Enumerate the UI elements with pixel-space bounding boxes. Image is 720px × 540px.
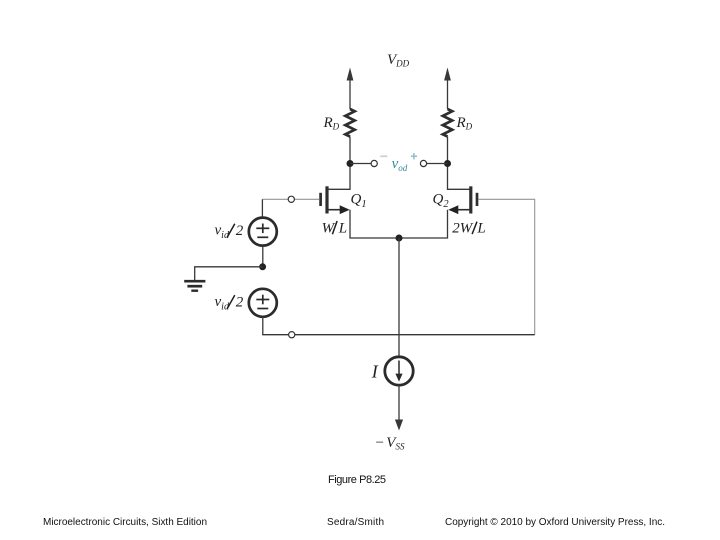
source vid/2 bottom [249,289,277,317]
wire stub to left output terminal [350,163,371,165]
wire input bottom vertical [262,317,264,335]
label vod with polarity [380,153,417,173]
arrow to -VSS [395,420,403,431]
source vid/2 top [249,218,277,246]
svg-text:Sedra/Smith: Sedra/Smith [327,517,384,528]
wire to ground [195,267,263,280]
wire Q1 gate lead [262,198,319,200]
label vid/2 top [215,222,244,241]
wire left rail resistor to drain [329,137,351,190]
wire right rail resistor to drain [448,137,470,190]
current source I [385,357,413,385]
wire stub to right output terminal [427,163,448,165]
svg-text:I: I [371,362,379,382]
svg-text:L: L [338,220,347,236]
wire common node to current source [398,238,400,357]
node right drain [444,160,451,167]
wire between sources [262,246,264,267]
wire Q2 gate loop [478,199,534,334]
terminal input top [288,196,294,202]
node left drain [347,160,354,167]
node input midpoint [259,263,266,270]
resistor RD1 [345,109,354,137]
svg-text:L: L [476,220,485,236]
ground [184,281,205,291]
svg-text:2W: 2W [452,220,474,236]
svg-text:Microelectronic Circuits, Sixt: Microelectronic Circuits, Sixth Edition [43,517,207,528]
svg-text:W: W [322,220,336,236]
wire bottom horizontal [262,334,535,336]
power VDD arrow right [444,68,451,110]
svg-text:2: 2 [236,295,244,311]
terminal vod minus [371,160,377,166]
label 2W/L [452,220,485,236]
svg-text:Figure P8.25: Figure P8.25 [328,474,386,486]
wire input top vertical [261,199,263,218]
label W/L [322,220,347,236]
node common source junction [396,235,403,242]
wire Q2 source to common node [399,210,448,238]
wire Q1 source to common node [350,210,399,238]
transistor Q1 [321,186,350,214]
label vid/2 bottom [215,294,244,313]
power VDD arrow left [347,68,354,110]
svg-text:2: 2 [236,223,244,239]
label -VSS [376,435,405,452]
terminal vod plus [420,160,426,166]
svg-text:Copyright © 2010 by Oxford Uni: Copyright © 2010 by Oxford University Pr… [445,517,665,528]
svg-text:−: − [376,435,384,451]
transistor Q2 [448,186,477,214]
terminal input bottom [289,332,295,338]
wire current source to VSS arrow [398,385,400,420]
resistor RD2 [443,109,452,137]
